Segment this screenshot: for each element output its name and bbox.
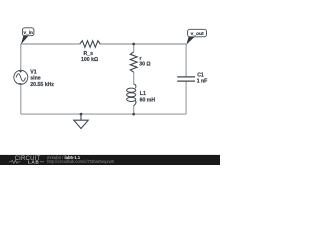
svg-text:1 nF: 1 nF: [197, 79, 208, 85]
svg-text:60 mH: 60 mH: [140, 97, 156, 103]
svg-text:V1: V1: [30, 69, 36, 75]
svg-text:sine: sine: [30, 76, 40, 82]
svg-text:20.55 kHz: 20.55 kHz: [30, 82, 54, 88]
svg-text:R_s: R_s: [84, 51, 94, 57]
svg-text:http://circuitlab.com/c/7t3bar: http://circuitlab.com/c/7t3bar5eqxw8: [47, 159, 114, 164]
svg-text:LAB: LAB: [28, 160, 39, 165]
svg-text:L1: L1: [140, 91, 146, 97]
svg-text:30 Ω: 30 Ω: [139, 62, 150, 68]
svg-text:100 kΩ: 100 kΩ: [81, 57, 98, 63]
svg-text:v_out: v_out: [191, 31, 204, 37]
svg-text:v_in: v_in: [24, 30, 34, 35]
